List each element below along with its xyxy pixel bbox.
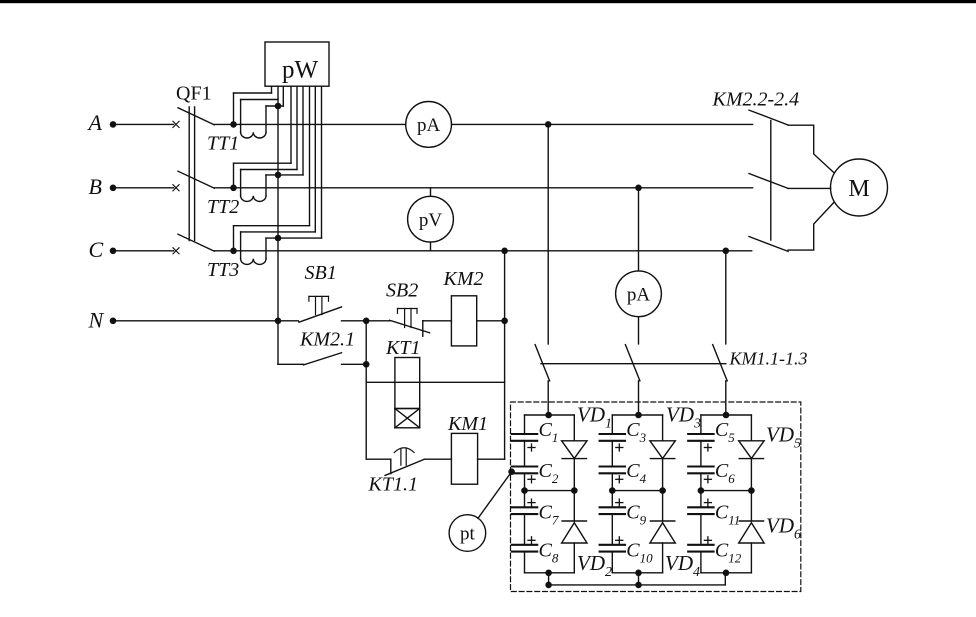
voltmeter pV	[408, 196, 454, 242]
current transformer TT2	[230, 185, 237, 192]
junction phase C control rail	[501, 248, 508, 255]
contact KM2 blade	[749, 110, 788, 125]
capacitor C5	[688, 433, 713, 435]
wire TT2 coil right lead	[265, 175, 267, 196]
wire KM2.1 right lead	[342, 363, 367, 365]
svg-text:C: C	[89, 237, 104, 262]
wire phase C feeder down	[725, 251, 727, 344]
svg-text:B: B	[89, 174, 102, 199]
svg-text:KM2: KM2	[443, 268, 484, 290]
wire contact to bank	[725, 381, 727, 415]
capacitor C2	[512, 465, 537, 467]
top border bar	[0, 0, 976, 3]
svg-text:pt: pt	[460, 524, 476, 545]
pushbutton SB1 plunger	[309, 295, 329, 297]
wire KM1 coil to rail	[478, 458, 505, 460]
diode VD top column 2	[650, 441, 675, 459]
wire TT3 coil right lead	[265, 238, 267, 259]
capacitor C6	[688, 465, 713, 467]
wire contact to bank	[638, 381, 640, 415]
temperature probe pt	[449, 515, 486, 552]
breaker QF1 blade	[178, 234, 214, 251]
contact KT1.1 blade	[385, 459, 424, 475]
junction TT2 common	[275, 172, 282, 179]
svg-text:VD5: VD5	[766, 423, 801, 452]
diode VD top column 1	[562, 441, 587, 459]
wire TT1 voltage tap riser	[233, 93, 235, 124]
breaker QF1 blade	[178, 171, 214, 188]
junction neutral common	[275, 318, 282, 325]
wire SB2 to KM2 coil	[423, 320, 452, 322]
breaker QF1 linkage	[188, 107, 190, 241]
svg-text:QF1: QF1	[176, 83, 212, 105]
pt probe junction	[508, 468, 515, 475]
bank column 1 bottom rail	[525, 572, 575, 574]
wire KT1.1 to KM1 coil	[424, 458, 451, 460]
wire TT1 coil right lead	[265, 106, 267, 132]
current transformer TT1	[230, 121, 237, 128]
contact KM2.1 blade	[304, 353, 342, 365]
wire neutral to SB1	[113, 320, 298, 322]
KT1.1 left jog	[390, 459, 392, 474]
svg-text:TT2: TT2	[207, 196, 239, 218]
wire pW common to neutral	[277, 86, 279, 364]
bank column 2 mid rail	[612, 490, 662, 492]
svg-text:TT3: TT3	[207, 259, 239, 281]
svg-text:C1: C1	[539, 419, 559, 445]
wire KM2.1 left lead	[278, 363, 304, 365]
wire motor phase A	[788, 125, 834, 172]
svg-text:N: N	[88, 307, 105, 332]
breaker QF1 blade	[178, 108, 214, 125]
capacitor C12	[688, 544, 713, 546]
svg-text:C4: C4	[626, 460, 646, 486]
svg-text:C6: C6	[715, 460, 735, 486]
junction TT1 common	[275, 103, 282, 110]
bank column 2 bottom rail	[612, 572, 662, 574]
wire TT3 voltage tap riser	[233, 226, 235, 251]
wire pA2 to contact KM1.2	[638, 317, 640, 344]
svg-text:TT1: TT1	[207, 132, 239, 154]
svg-text:VD4: VD4	[665, 551, 700, 580]
bank column 3 diode branch wire	[750, 415, 752, 441]
wire phase C to breaker	[113, 250, 174, 252]
junction KM2.1 right	[363, 361, 370, 368]
ammeter pA capacitor bank	[616, 271, 662, 317]
capacitor C11	[688, 506, 713, 508]
junction phase A capacitor feeder	[545, 121, 552, 128]
junction neutral SB1 right	[363, 318, 370, 325]
phase terminal A	[110, 121, 117, 128]
current transformer TT3	[230, 248, 237, 255]
contact KT1.1 delay head	[394, 448, 414, 453]
bank column 1 diode branch wire	[573, 415, 575, 441]
wire TT3 coil left lead	[240, 232, 242, 259]
contact KM2 blade	[749, 174, 788, 189]
svg-text:C11: C11	[715, 502, 740, 528]
contact KM1 blade	[625, 345, 640, 381]
svg-text:pA: pA	[627, 284, 651, 305]
phase terminal C	[110, 248, 117, 255]
pushbutton SB1 blade	[299, 307, 342, 322]
svg-text:A: A	[87, 110, 103, 135]
svg-text:KT1.1: KT1.1	[368, 474, 418, 496]
diode VD bottom column 2	[650, 523, 675, 543]
wire phase B to breaker	[113, 187, 174, 189]
time relay coil KT1	[395, 358, 420, 409]
breaker QF1 contact cross	[173, 121, 179, 127]
svg-text:KM2.1: KM2.1	[299, 329, 355, 351]
pt pointer wire	[478, 472, 512, 519]
bank column 2 top rail	[612, 414, 662, 416]
bank column 3 mid rail	[701, 490, 752, 492]
wire phase A after breaker	[214, 123, 405, 125]
wire phase A pA to motor contact	[452, 123, 753, 125]
contact KM2 blade	[749, 237, 788, 252]
wire phase B after breaker	[214, 187, 752, 189]
svg-text:C2: C2	[539, 460, 559, 486]
junction TT3 common	[275, 235, 282, 242]
bank column 3 top rail	[701, 414, 752, 416]
svg-text:VD1: VD1	[577, 403, 612, 432]
bank column 1 top rail	[525, 414, 575, 416]
svg-text:M: M	[848, 176, 869, 202]
pW wire bundle risers	[271, 86, 273, 93]
pushbutton SB2 stub	[422, 321, 424, 336]
svg-text:SB2: SB2	[386, 280, 418, 302]
capacitor C7	[512, 506, 537, 508]
wire TT1 coil left lead	[240, 100, 242, 133]
wire SB1 to SB2	[342, 320, 390, 322]
control rail right	[504, 251, 506, 459]
capacitor C3	[600, 433, 625, 435]
phase terminal N	[110, 318, 117, 325]
svg-text:KM1.1-1.3: KM1.1-1.3	[729, 349, 808, 369]
capacitor C9	[600, 506, 625, 508]
capacitor bank dashed enclosure	[511, 402, 801, 592]
svg-text:KM2.2-2.4: KM2.2-2.4	[712, 89, 800, 111]
svg-text:VD6: VD6	[766, 514, 801, 543]
junction phase B capacitor feeder	[635, 185, 642, 192]
bank column 3 capacitor branch	[700, 415, 702, 434]
contactor coil KM1	[451, 433, 477, 484]
wire pV to phase B	[430, 188, 432, 197]
contact KM1 blade	[713, 345, 728, 381]
svg-text:C9: C9	[626, 502, 646, 528]
wire phase A to breaker	[113, 123, 174, 125]
wire phase C after breaker	[214, 250, 751, 252]
bank column 2 capacitor branch	[611, 415, 613, 434]
capacitor C10	[600, 544, 625, 546]
svg-text:pA: pA	[417, 115, 441, 136]
pushbutton SB2 blade	[390, 320, 430, 333]
junction phase C capacitor feeder	[723, 248, 730, 255]
capacitor C4	[600, 465, 625, 467]
motor M	[831, 159, 888, 216]
svg-text:SB1: SB1	[305, 262, 337, 284]
pushbutton SB2 plunger	[398, 308, 418, 310]
svg-text:C5: C5	[715, 419, 735, 445]
wire KM2 coil to rail	[477, 320, 505, 322]
bank column 3 bottom rail	[701, 572, 752, 574]
diode VD top column 3	[739, 441, 764, 459]
breaker QF1 contact cross	[173, 248, 179, 254]
wattmeter pW box	[265, 42, 329, 86]
wire motor phase C	[788, 203, 834, 251]
svg-text:C3: C3	[626, 419, 646, 445]
KT1 release box	[395, 409, 420, 428]
diode VD bottom column 1	[562, 523, 587, 543]
bank column 1 capacitor branch	[524, 415, 526, 434]
svg-text:pV: pV	[419, 210, 443, 231]
diode VD bottom column 3	[739, 523, 764, 543]
contact KM1 blade	[535, 345, 550, 381]
svg-text:C7: C7	[539, 502, 559, 528]
svg-text:KT1: KT1	[385, 337, 420, 359]
wire contact to bank	[547, 381, 549, 415]
wire pV to phase C	[430, 242, 432, 251]
phase terminal B	[110, 185, 117, 192]
wire TT2 voltage tap riser	[233, 163, 235, 188]
wire KT1.1 row left	[366, 458, 391, 460]
bank column 2 diode branch wire	[662, 415, 664, 441]
junction neutral right rail	[501, 318, 508, 325]
bank column 1 mid rail	[525, 490, 575, 492]
contact KM1 linkage	[541, 363, 726, 365]
wire TT2 coil left lead	[240, 170, 242, 196]
contactor coil KM2	[451, 296, 476, 346]
wire phase B to pA2	[638, 188, 640, 271]
contact KM2 linkage	[770, 121, 772, 241]
breaker QF1 contact cross	[173, 185, 179, 191]
bank bottom bus	[549, 584, 726, 586]
svg-text:KM1: KM1	[447, 413, 488, 435]
wire motor phase B	[788, 187, 831, 189]
wire KT1 row	[366, 381, 504, 383]
svg-text:pW: pW	[282, 57, 319, 84]
capacitor C1	[512, 433, 537, 435]
svg-text:C8: C8	[539, 540, 559, 566]
svg-text:VD2: VD2	[577, 551, 612, 580]
control rail left	[365, 321, 367, 459]
capacitor C8	[512, 544, 537, 546]
ammeter pA phase A	[406, 102, 452, 148]
wire phase A feeder down	[547, 124, 549, 344]
svg-text:VD3: VD3	[666, 403, 701, 432]
